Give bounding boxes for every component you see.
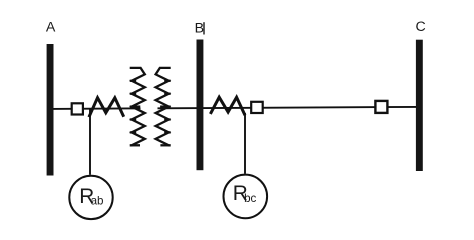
transformer T1 right winding (156, 68, 171, 145)
transformer T1 left winding (130, 68, 145, 145)
wire: bus A to transformer left winding (52, 107, 141, 110)
meter circle R_bc (224, 175, 268, 219)
svg-text:A: A (46, 19, 56, 35)
svg-text:bc: bc (244, 192, 256, 205)
resistor 2 (B side) (210, 97, 245, 115)
breaker square 2 (251, 102, 263, 113)
bus C (416, 40, 423, 171)
meter circle R_ab (69, 176, 112, 219)
wire: transformer right winding to bus C (158, 107, 418, 108)
wire tap to R_ab (89, 109, 91, 175)
bus B (197, 40, 204, 171)
svg-text:ab: ab (91, 195, 104, 208)
wire tap to R_bc (244, 113, 246, 174)
label B tick (203, 22, 204, 34)
svg-text:B: B (195, 21, 204, 37)
bus A (47, 44, 54, 176)
breaker square 1 (72, 103, 83, 114)
breaker square 3 (375, 101, 387, 113)
resistor 1 (A side) (89, 98, 124, 117)
svg-text:C: C (416, 19, 426, 35)
